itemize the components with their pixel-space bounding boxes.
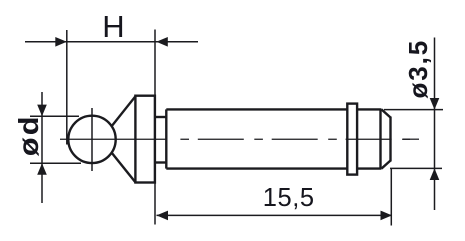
svg-text:H: H <box>102 9 124 44</box>
svg-text:15,5: 15,5 <box>263 184 315 212</box>
svg-text:ød: ød <box>13 114 44 156</box>
svg-text:ø3,5: ø3,5 <box>403 39 433 99</box>
